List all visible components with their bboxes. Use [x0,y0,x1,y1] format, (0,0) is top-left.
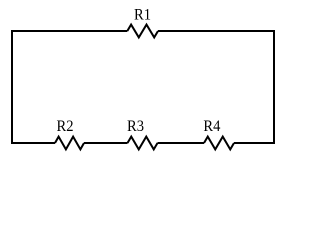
resistor R2 [55,137,84,150]
svg-text:R4: R4 [203,118,220,135]
svg-text:R3: R3 [127,118,144,135]
wire right vertical [273,30,275,143]
wire bottom segment D (R4 to right corner) [234,142,275,144]
wire top-right segment [158,30,274,32]
wire top-left segment [11,30,127,32]
svg-text:R1: R1 [134,6,151,23]
wire bottom segment A (left corner to R2) [11,142,55,144]
wire bottom segment B (R2 to R3) [84,142,128,144]
resistor R1 [127,25,158,38]
svg-text:R2: R2 [57,118,74,135]
wire bottom segment C (R3 to R4) [158,142,205,144]
resistor R4 [204,137,234,150]
wire left vertical [11,30,13,143]
resistor R3 [128,137,158,150]
